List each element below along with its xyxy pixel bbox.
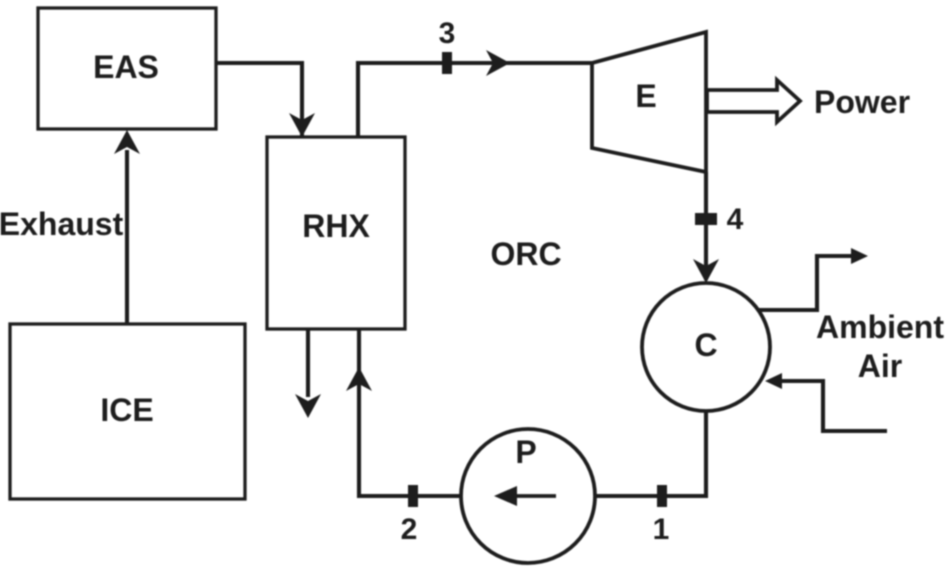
arrowhead RHX exhaust down: [295, 394, 321, 418]
box EAS: [38, 8, 216, 129]
condenser C: [642, 283, 770, 411]
arrowhead ambient out: [851, 248, 868, 264]
svg-text:4: 4: [727, 203, 744, 236]
svg-text:P: P: [515, 434, 536, 470]
svg-text:Power: Power: [814, 84, 910, 120]
svg-text:ICE: ICE: [100, 392, 153, 428]
arrowhead ambient in: [765, 373, 782, 389]
svg-text:RHX: RHX: [302, 208, 370, 244]
wire condenser to pump: [596, 410, 706, 496]
svg-text:ORC: ORC: [490, 236, 561, 272]
box RHX: [267, 137, 405, 329]
svg-text:Ambient: Ambient: [816, 309, 944, 345]
svg-text:E: E: [635, 78, 656, 114]
tick node 3: [442, 52, 452, 74]
wire ambient air in: [778, 381, 887, 431]
wire pump to RHX: [359, 329, 461, 496]
pump arrow line: [512, 494, 556, 498]
tick node 4: [695, 213, 717, 225]
wire EAS to RHX: [216, 63, 302, 137]
wire ambient air out: [757, 256, 855, 310]
tick node 1: [657, 485, 667, 507]
svg-text:1: 1: [653, 513, 670, 546]
svg-text:EAS: EAS: [93, 49, 159, 85]
svg-text:2: 2: [401, 513, 418, 546]
wire exhaust ICE to EAS: [125, 150, 129, 324]
arrowhead up mid wire pump to RHX: [346, 367, 372, 391]
tick node 2: [408, 485, 418, 507]
box ICE: [10, 324, 245, 499]
wire RHX to turbine: [358, 63, 592, 137]
arrowhead exhaust into EAS: [114, 130, 140, 154]
svg-text:C: C: [694, 327, 717, 363]
turbine E: [592, 32, 706, 172]
svg-text:Exhaust: Exhaust: [0, 206, 124, 242]
wire turbine to condenser: [704, 172, 708, 280]
arrowhead pump internal: [494, 486, 517, 506]
arrowhead on wire 3: [486, 50, 510, 76]
pump P: [461, 429, 595, 563]
wire RHX exhaust out: [306, 329, 310, 397]
svg-text:Air: Air: [858, 348, 902, 384]
arrowhead into condenser: [693, 259, 719, 283]
svg-text:3: 3: [439, 17, 456, 50]
arrowhead into RHX top: [289, 113, 315, 137]
power arrow hollow: [707, 80, 800, 122]
